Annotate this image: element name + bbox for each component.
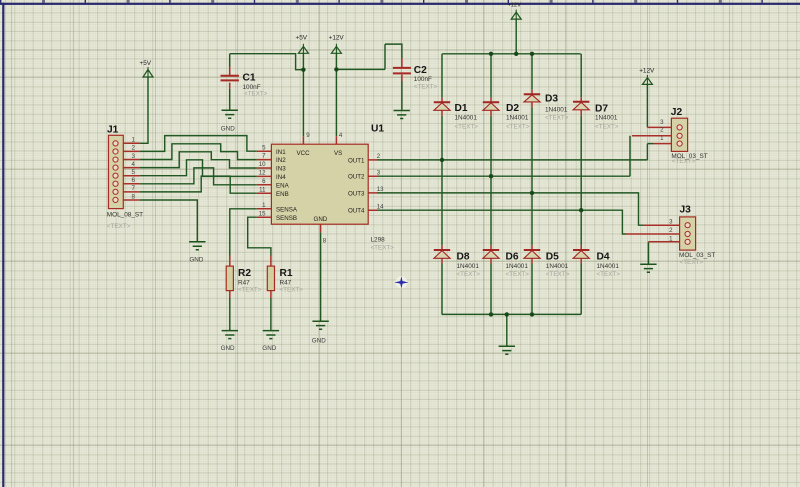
svg-text:100nF: 100nF xyxy=(414,76,432,83)
svg-text:+12V: +12V xyxy=(329,35,345,42)
svg-text:9: 9 xyxy=(306,132,310,139)
svg-text:15: 15 xyxy=(259,210,266,217)
svg-text:<TEXT>: <TEXT> xyxy=(455,123,479,130)
svg-text:<TEXT>: <TEXT> xyxy=(545,115,569,122)
svg-text:1N4001: 1N4001 xyxy=(546,263,569,270)
svg-text:4: 4 xyxy=(339,132,343,139)
svg-text:J3: J3 xyxy=(680,204,692,215)
svg-text:<TEXT>: <TEXT> xyxy=(680,259,704,266)
svg-text:D6: D6 xyxy=(506,252,519,263)
svg-text:1N4001: 1N4001 xyxy=(506,263,529,270)
svg-text:U1: U1 xyxy=(371,124,384,135)
svg-text:<TEXT>: <TEXT> xyxy=(506,271,530,278)
svg-text:D4: D4 xyxy=(597,252,610,263)
svg-text:<TEXT>: <TEXT> xyxy=(371,245,395,252)
svg-text:8: 8 xyxy=(323,238,327,245)
svg-text:1N4001: 1N4001 xyxy=(455,114,478,121)
svg-text:+5V: +5V xyxy=(296,35,308,42)
svg-text:D5: D5 xyxy=(546,252,559,263)
svg-text:<TEXT>: <TEXT> xyxy=(595,123,619,130)
svg-text:L298: L298 xyxy=(371,237,386,244)
svg-text:IN3: IN3 xyxy=(276,166,286,173)
svg-text:GND: GND xyxy=(314,216,328,223)
svg-text:ENA: ENA xyxy=(276,182,290,189)
svg-text:D2: D2 xyxy=(506,103,519,114)
svg-text:+12V: +12V xyxy=(639,68,655,75)
svg-text:12: 12 xyxy=(259,170,266,177)
svg-text:<TEXT>: <TEXT> xyxy=(238,287,262,294)
svg-text:6: 6 xyxy=(262,178,266,185)
svg-text:<TEXT>: <TEXT> xyxy=(546,271,570,278)
svg-text:D7: D7 xyxy=(595,103,608,114)
svg-text:GND: GND xyxy=(221,126,235,133)
svg-text:R2: R2 xyxy=(238,268,251,279)
svg-text:GND: GND xyxy=(312,338,326,345)
svg-text:<TEXT>: <TEXT> xyxy=(506,123,530,130)
svg-text:R47: R47 xyxy=(280,279,292,286)
svg-text:J1: J1 xyxy=(107,125,119,136)
svg-text:GND: GND xyxy=(221,345,235,352)
svg-text:GND: GND xyxy=(189,257,203,264)
svg-text:+12V: +12V xyxy=(508,3,521,9)
svg-text:7: 7 xyxy=(262,153,266,160)
svg-text:VS: VS xyxy=(334,150,342,157)
svg-text:R47: R47 xyxy=(238,279,250,286)
svg-text:11: 11 xyxy=(259,186,266,193)
svg-text:10: 10 xyxy=(259,161,266,168)
svg-text:SENSB: SENSB xyxy=(276,215,297,222)
svg-text:4: 4 xyxy=(132,161,136,168)
svg-text:5: 5 xyxy=(262,144,266,151)
svg-text:R1: R1 xyxy=(280,268,293,279)
svg-text:1N4001: 1N4001 xyxy=(597,263,620,270)
svg-text:MOL_08_ST: MOL_08_ST xyxy=(107,212,143,219)
svg-text:GND: GND xyxy=(262,345,276,352)
svg-text:D3: D3 xyxy=(545,94,558,105)
svg-text:C1: C1 xyxy=(243,73,256,84)
svg-text:J2: J2 xyxy=(671,107,683,118)
svg-text:<TEXT>: <TEXT> xyxy=(107,223,131,230)
svg-text:OUT1: OUT1 xyxy=(348,157,365,164)
svg-text:<TEXT>: <TEXT> xyxy=(280,287,304,294)
svg-text:IN2: IN2 xyxy=(276,157,286,164)
svg-text:OUT3: OUT3 xyxy=(348,190,365,197)
svg-text:D1: D1 xyxy=(455,103,468,114)
svg-text:1N4001: 1N4001 xyxy=(457,263,480,270)
svg-text:2: 2 xyxy=(377,153,381,160)
svg-text:VCC: VCC xyxy=(297,150,311,157)
svg-text:OUT4: OUT4 xyxy=(348,208,365,215)
svg-text:1N4001: 1N4001 xyxy=(506,114,529,121)
svg-text:<TEXT>: <TEXT> xyxy=(414,84,438,91)
svg-text:IN1: IN1 xyxy=(276,149,286,156)
svg-text:<TEXT>: <TEXT> xyxy=(672,158,696,165)
svg-text:13: 13 xyxy=(377,186,384,193)
svg-text:1: 1 xyxy=(262,202,266,209)
svg-text:<TEXT>: <TEXT> xyxy=(244,91,268,98)
svg-text:ENB: ENB xyxy=(276,191,289,198)
svg-text:C2: C2 xyxy=(414,65,427,76)
svg-text:OUT2: OUT2 xyxy=(348,174,365,181)
svg-text:3: 3 xyxy=(660,119,664,126)
svg-text:+5V: +5V xyxy=(140,60,152,67)
svg-text:SENSA: SENSA xyxy=(276,206,298,213)
svg-text:3: 3 xyxy=(377,169,381,176)
svg-text:2: 2 xyxy=(669,227,673,234)
svg-text:<TEXT>: <TEXT> xyxy=(457,271,481,278)
svg-text:<TEXT>: <TEXT> xyxy=(597,271,621,278)
svg-text:IN4: IN4 xyxy=(276,174,286,181)
svg-text:1N4001: 1N4001 xyxy=(595,114,618,121)
svg-text:14: 14 xyxy=(377,203,384,210)
svg-text:1N4001: 1N4001 xyxy=(545,107,568,114)
svg-text:D8: D8 xyxy=(457,252,470,263)
